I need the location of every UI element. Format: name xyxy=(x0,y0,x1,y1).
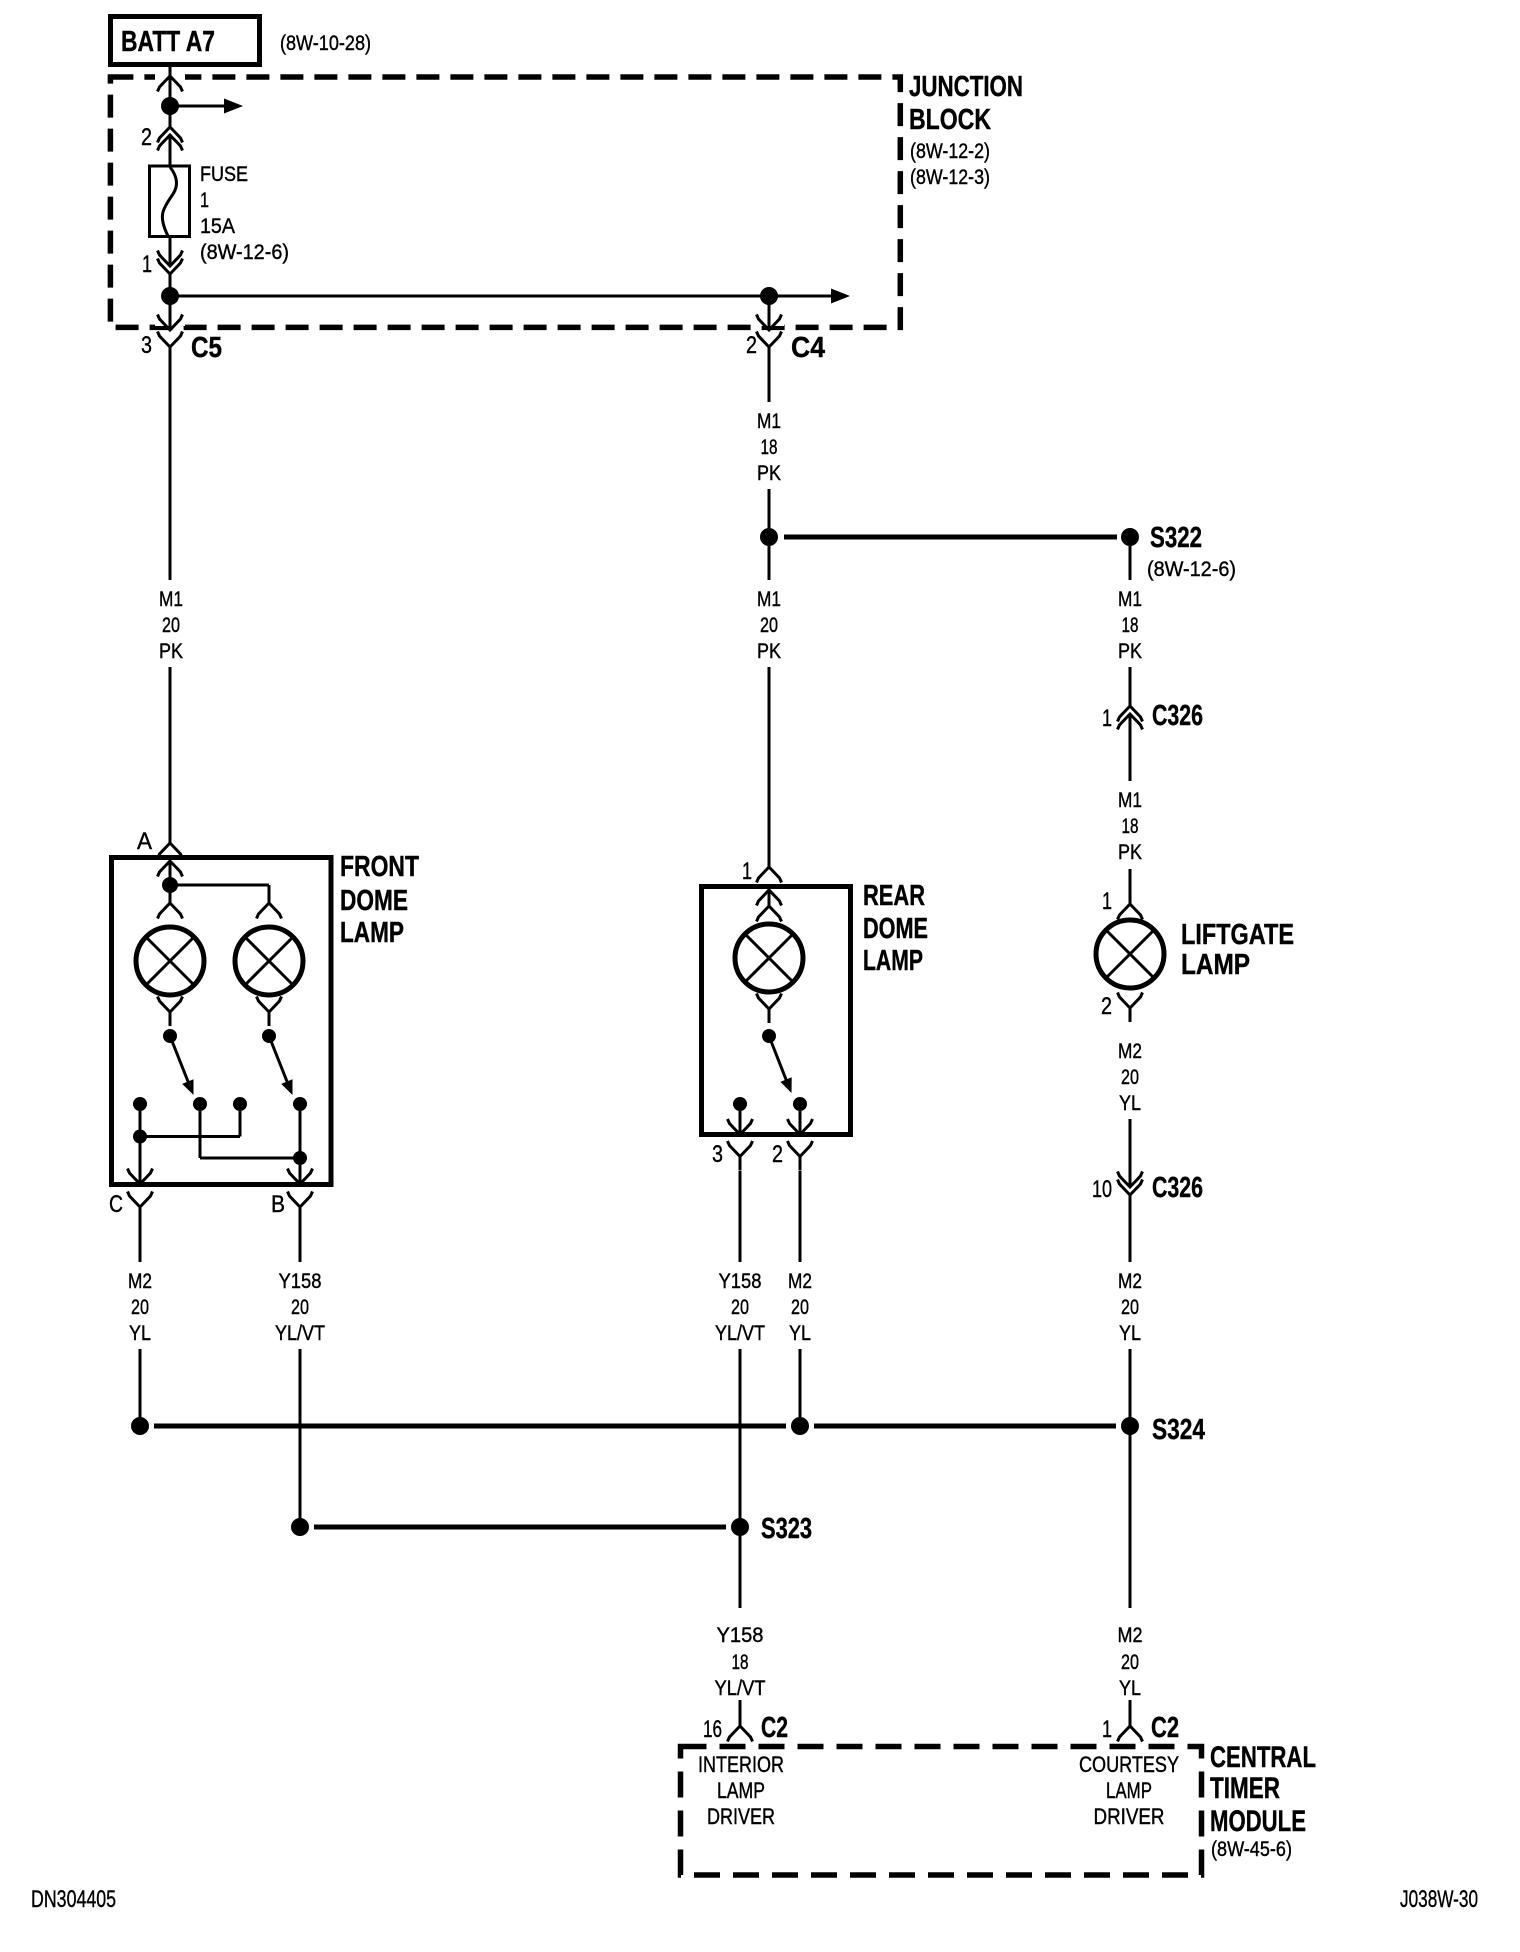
node S324 middle xyxy=(791,1417,809,1435)
svg-text:FRONT: FRONT xyxy=(340,851,419,883)
wire to liftgate lamp xyxy=(1129,869,1132,904)
svg-text:1: 1 xyxy=(142,251,152,278)
svg-text:YL/VT: YL/VT xyxy=(715,1677,766,1700)
svg-text:C2: C2 xyxy=(761,1712,788,1744)
svg-text:PK: PK xyxy=(757,462,781,485)
wire pin C to S324 xyxy=(139,1349,142,1426)
svg-text:18: 18 xyxy=(1122,815,1139,838)
connector rear pin 2 female half xyxy=(788,1141,813,1171)
wire branch arrow right xyxy=(170,105,224,108)
svg-text:YL/VT: YL/VT xyxy=(275,1322,325,1345)
wire label M1 18 PK right lower xyxy=(1118,789,1142,864)
svg-text:INTERIOR: INTERIOR xyxy=(698,1752,784,1777)
svg-text:C4: C4 xyxy=(791,332,825,364)
wire C326 pin 10 down xyxy=(1129,1195,1132,1262)
wire label M2 20 YL bottom xyxy=(1118,1624,1143,1700)
wire label M1 18 PK right upper xyxy=(1118,588,1142,663)
svg-text:(8W-12-3): (8W-12-3) xyxy=(910,166,990,189)
lamp LIFTGATE LAMP xyxy=(1096,920,1164,988)
svg-text:LIFTGATE: LIFTGATE xyxy=(1181,919,1294,951)
svg-text:20: 20 xyxy=(1121,1651,1139,1674)
label FRONT DOME LAMP xyxy=(340,851,419,949)
svg-text:M1: M1 xyxy=(1118,789,1142,812)
wire stub left bulb xyxy=(169,885,172,903)
wire C5 down xyxy=(169,361,172,580)
switch pivot rear xyxy=(762,1029,776,1043)
svg-text:M1: M1 xyxy=(757,410,781,433)
connector below rear bulb xyxy=(757,994,782,1024)
label COURTESY LAMP DRIVER xyxy=(1079,1752,1179,1829)
wire rear pin 3 to label xyxy=(739,1171,742,1262)
svg-text:1: 1 xyxy=(1102,705,1112,732)
svg-text:16: 16 xyxy=(703,1716,722,1743)
svg-text:YL: YL xyxy=(1119,1092,1141,1115)
svg-text:20: 20 xyxy=(1121,1296,1139,1319)
wire splice S324 bus left xyxy=(154,1424,786,1429)
connector C4 chevron above border xyxy=(757,315,782,331)
node S323 left end xyxy=(291,1518,309,1536)
wire splice S324 bus right xyxy=(814,1424,1116,1429)
svg-text:3: 3 xyxy=(141,332,152,359)
svg-text:MODULE: MODULE xyxy=(1210,1805,1306,1838)
svg-text:COURTESY: COURTESY xyxy=(1079,1752,1179,1777)
wire splice S323 bus xyxy=(314,1525,726,1530)
wire to C2 pin 16 xyxy=(739,1700,742,1726)
label CENTRAL TIMER MODULE xyxy=(1210,1741,1316,1838)
node splice at battery feed xyxy=(161,97,179,115)
svg-text:REAR: REAR xyxy=(863,880,925,912)
svg-text:2: 2 xyxy=(746,332,757,359)
label LIFTGATE LAMP xyxy=(1181,919,1294,981)
connector rear pin 1 male half xyxy=(757,890,782,906)
svg-text:10: 10 xyxy=(1092,1176,1112,1203)
svg-text:LAMP: LAMP xyxy=(1181,949,1250,981)
svg-text:1: 1 xyxy=(200,189,209,212)
svg-text:Y158: Y158 xyxy=(279,1270,322,1293)
svg-text:LAMP: LAMP xyxy=(340,917,404,949)
connector rear pin 2 male half xyxy=(788,1119,813,1135)
svg-text:20: 20 xyxy=(291,1296,309,1319)
svg-text:JUNCTION: JUNCTION xyxy=(909,71,1023,103)
wire C326 down xyxy=(1129,714,1132,781)
wire contact C link xyxy=(139,1104,142,1137)
central timer module dashed outline xyxy=(681,1747,1202,1876)
svg-text:20: 20 xyxy=(791,1296,809,1319)
svg-text:2: 2 xyxy=(772,1141,783,1168)
wire to rear dome lamp xyxy=(768,667,771,867)
connector pin A male half xyxy=(158,861,183,877)
wire rear pin 3 down xyxy=(739,1104,742,1134)
label REAR DOME LAMP xyxy=(863,880,928,977)
svg-text:S324: S324 xyxy=(1152,1414,1205,1446)
white gaps where wires cross dashed border xyxy=(155,72,784,326)
switch contact dots row xyxy=(133,1097,147,1111)
wire label M2 20 YL pin C xyxy=(128,1270,152,1345)
wire rear pin 2 down xyxy=(799,1104,802,1134)
switch blade rear with arrowhead xyxy=(769,1036,787,1082)
svg-text:20: 20 xyxy=(131,1296,149,1319)
svg-text:2: 2 xyxy=(1101,993,1112,1020)
svg-text:YL: YL xyxy=(1119,1677,1141,1700)
svg-text:Y158: Y158 xyxy=(717,1624,764,1647)
wire splice S322 bus xyxy=(784,535,1117,540)
svg-text:20: 20 xyxy=(760,614,778,637)
node splice S322 right xyxy=(1121,528,1139,546)
node link left xyxy=(133,1130,147,1144)
wire rear pin 1 stub xyxy=(768,890,771,906)
svg-text:C2: C2 xyxy=(1151,1712,1179,1744)
svg-text:(8W-10-28): (8W-10-28) xyxy=(280,32,371,55)
wire rear pin 2 to S324 xyxy=(799,1349,802,1426)
lamp front dome right bulb xyxy=(235,927,303,995)
label FUSE 1 15A (8W-12-6) xyxy=(200,163,289,264)
wire S323 down xyxy=(739,1536,742,1608)
wire to C326 pin 1 xyxy=(1129,667,1132,706)
connector pin 1 female half rear dome xyxy=(757,867,782,883)
svg-text:18: 18 xyxy=(732,1651,749,1674)
switch blade left with arrowhead xyxy=(170,1036,189,1084)
wire label Y158 20 YL/VT pin B xyxy=(275,1270,325,1345)
svg-text:DRIVER: DRIVER xyxy=(1094,1804,1165,1829)
wire label M1 18 PK middle upper xyxy=(757,410,781,485)
svg-text:S323: S323 xyxy=(761,1513,812,1545)
connector C5 female half xyxy=(158,332,183,362)
svg-text:M1: M1 xyxy=(159,588,183,611)
connector pin A female half xyxy=(158,843,183,859)
switch pivot right xyxy=(262,1029,276,1043)
wire contact down link xyxy=(199,1104,202,1158)
wire S322 down right xyxy=(1129,546,1132,580)
connector rear bulb female xyxy=(757,906,782,922)
label JUNCTION BLOCK xyxy=(909,71,1023,136)
svg-text:M2: M2 xyxy=(788,1270,812,1293)
svg-text:1: 1 xyxy=(1102,888,1112,915)
wire tap down to C4 xyxy=(768,296,771,330)
node S324 right end xyxy=(1121,1417,1139,1435)
wire label M1 20 PK middle xyxy=(757,588,781,663)
wire junction block bus with arrow xyxy=(170,295,831,298)
svg-text:1: 1 xyxy=(742,858,752,885)
switch contacts rear xyxy=(733,1097,747,1111)
connector rear pin 3 male half xyxy=(728,1119,753,1135)
wire label M2 20 YL liftgate xyxy=(1118,1040,1142,1115)
svg-text:M2: M2 xyxy=(1118,1040,1142,1063)
connector C326 pin 1 chevrons xyxy=(1118,706,1143,722)
wire pin C down to label xyxy=(139,1221,142,1262)
wire label Y158 18 YL/VT bottom xyxy=(715,1624,766,1700)
wire pin B down to label xyxy=(299,1221,302,1262)
wire label M2 20 YL rear xyxy=(788,1270,812,1345)
svg-text:1: 1 xyxy=(1102,1716,1112,1743)
wire label M2 20 YL right xyxy=(1118,1270,1142,1345)
wire label M1 20 PK left xyxy=(159,588,183,663)
node link right xyxy=(293,1151,307,1165)
wire to splice S322 xyxy=(768,489,771,528)
junction block dashed outline xyxy=(110,77,900,327)
svg-text:(8W-12-6): (8W-12-6) xyxy=(1147,558,1236,581)
wire to front dome lamp xyxy=(169,667,172,843)
svg-text:LAMP: LAMP xyxy=(1106,1778,1152,1803)
node S323 right end xyxy=(731,1518,749,1536)
connector pin C male half xyxy=(128,1169,153,1185)
connector pin 1 female half liftgate xyxy=(1118,904,1143,920)
svg-text:FUSE: FUSE xyxy=(200,163,248,186)
wire contact B link xyxy=(299,1104,302,1184)
svg-text:20: 20 xyxy=(731,1296,749,1319)
lamp rear dome bulb xyxy=(735,924,803,992)
wire pin A to splice xyxy=(169,861,172,885)
connector right bulb female xyxy=(257,903,282,919)
svg-text:LAMP: LAMP xyxy=(717,1778,765,1803)
svg-text:C5: C5 xyxy=(191,332,222,364)
svg-text:C: C xyxy=(109,1191,123,1218)
svg-text:2: 2 xyxy=(141,124,152,151)
connector C4 female half xyxy=(757,332,782,362)
svg-text:C326: C326 xyxy=(1152,700,1203,732)
connector C2 pin 1 female half xyxy=(1118,1726,1143,1742)
svg-text:3: 3 xyxy=(712,1141,723,1168)
svg-text:DRIVER: DRIVER xyxy=(707,1804,775,1829)
svg-text:BLOCK: BLOCK xyxy=(909,104,991,136)
svg-text:DOME: DOME xyxy=(863,913,928,945)
wire pin C down xyxy=(139,1137,142,1185)
wire C4 down xyxy=(768,361,771,402)
wire to C2 pin 1 xyxy=(1129,1700,1132,1726)
wire BATT A7 to fuse xyxy=(169,67,172,127)
svg-text:15A: 15A xyxy=(200,215,235,238)
fuse F1 body xyxy=(150,166,190,237)
svg-text:20: 20 xyxy=(1121,1066,1139,1089)
svg-text:YL: YL xyxy=(1119,1322,1141,1345)
svg-text:DN304405: DN304405 xyxy=(31,1886,116,1913)
node splice inside junction block xyxy=(161,287,179,305)
svg-text:18: 18 xyxy=(1122,614,1139,637)
connector pin C female half xyxy=(128,1192,153,1222)
fuse F1 element wave xyxy=(162,167,176,236)
svg-text:M1: M1 xyxy=(1118,588,1142,611)
wire fuse bottom to splice xyxy=(169,236,172,266)
connector pin 2 liftgate xyxy=(1118,993,1143,1023)
svg-text:BATT A7: BATT A7 xyxy=(121,26,215,58)
wire pin B to S323 xyxy=(299,1349,302,1527)
wire fuse to C5 xyxy=(169,274,172,330)
wire cross link upper xyxy=(140,1135,240,1138)
svg-text:PK: PK xyxy=(1118,841,1142,864)
svg-text:A: A xyxy=(137,828,152,855)
connector rear pin 3 female half xyxy=(728,1141,753,1171)
connector C2 pin 16 female half xyxy=(728,1726,753,1742)
node splice front dome xyxy=(162,877,178,893)
wire to C326 pin 10 xyxy=(1129,1119,1132,1187)
switch pivot left xyxy=(163,1029,177,1043)
connector below right bulb xyxy=(257,997,282,1027)
label INTERIOR LAMP DRIVER xyxy=(698,1752,784,1829)
connector below left bulb xyxy=(158,997,183,1027)
wire S322 down middle xyxy=(768,546,771,580)
svg-text:DOME: DOME xyxy=(340,885,408,917)
svg-text:18: 18 xyxy=(761,436,778,459)
wire label Y158 20 YL/VT rear xyxy=(715,1270,765,1345)
node tap to C4 xyxy=(760,287,778,305)
node S324 left end xyxy=(131,1417,149,1435)
connector C326 pin 10 chevrons xyxy=(1118,1172,1143,1188)
svg-text:M2: M2 xyxy=(1118,1270,1142,1293)
connector pin B male half xyxy=(288,1169,313,1185)
component BATT A7 feed box xyxy=(111,17,260,65)
svg-text:Y158: Y158 xyxy=(719,1270,762,1293)
svg-text:S322: S322 xyxy=(1150,522,1202,554)
svg-text:PK: PK xyxy=(757,640,781,663)
svg-text:J038W-30: J038W-30 xyxy=(1400,1886,1478,1913)
svg-text:YL: YL xyxy=(129,1322,151,1345)
node splice S322 left xyxy=(760,528,778,546)
component FRONT DOME LAMP box xyxy=(112,858,332,1185)
svg-text:20: 20 xyxy=(162,614,180,637)
svg-text:YL: YL xyxy=(789,1322,811,1345)
connector chevrons fuse pin 1 xyxy=(158,251,183,267)
svg-text:YL/VT: YL/VT xyxy=(715,1322,765,1345)
arrow into junction block xyxy=(158,76,183,92)
wire rear pin 2 to label xyxy=(799,1171,802,1262)
wire rear pin 3 to S323 xyxy=(739,1349,742,1527)
wire S324 down xyxy=(1129,1426,1132,1608)
switch blade right with arrowhead xyxy=(269,1036,288,1084)
connector chevrons fuse pin 2 xyxy=(158,127,183,143)
wire branch to right bulb xyxy=(170,884,269,887)
svg-text:C326: C326 xyxy=(1152,1172,1203,1204)
svg-text:(8W-12-6): (8W-12-6) xyxy=(200,241,289,264)
wire fuse top stub xyxy=(169,135,172,166)
connector left bulb female xyxy=(158,903,183,919)
svg-text:LAMP: LAMP xyxy=(863,945,923,977)
svg-text:(8W-45-6): (8W-45-6) xyxy=(1211,1838,1292,1861)
connector C5 chevron above border xyxy=(158,315,183,331)
svg-text:B: B xyxy=(271,1191,285,1218)
connector pin B female half xyxy=(288,1192,313,1222)
svg-text:M2: M2 xyxy=(1118,1624,1143,1647)
svg-text:CENTRAL: CENTRAL xyxy=(1210,1741,1316,1774)
wire to S324 xyxy=(1129,1349,1132,1426)
svg-text:M2: M2 xyxy=(128,1270,152,1293)
svg-text:PK: PK xyxy=(159,640,183,663)
svg-text:M1: M1 xyxy=(757,588,781,611)
svg-text:TIMER: TIMER xyxy=(1210,1772,1280,1805)
svg-text:(8W-12-2): (8W-12-2) xyxy=(910,140,990,163)
svg-text:PK: PK xyxy=(1118,640,1142,663)
component REAR DOME LAMP box xyxy=(702,887,851,1135)
lamp front dome left bulb xyxy=(136,927,204,995)
